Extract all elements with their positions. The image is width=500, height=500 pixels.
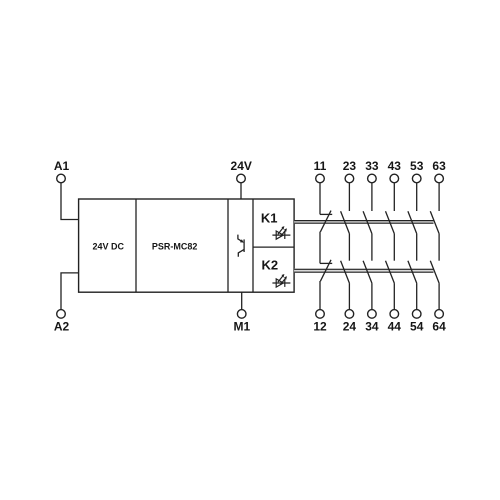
svg-text:M1: M1 [233, 320, 250, 334]
svg-text:53: 53 [410, 159, 424, 173]
svg-text:44: 44 [388, 320, 402, 334]
svg-text:PSR-MC82: PSR-MC82 [152, 242, 198, 252]
svg-text:24: 24 [343, 320, 357, 334]
svg-text:43: 43 [388, 159, 402, 173]
svg-text:63: 63 [432, 159, 446, 173]
svg-text:34: 34 [365, 320, 379, 334]
svg-text:54: 54 [410, 320, 424, 334]
svg-text:A1: A1 [54, 159, 70, 173]
svg-text:24V: 24V [231, 159, 252, 173]
svg-text:11: 11 [314, 159, 327, 173]
svg-text:12: 12 [313, 320, 327, 334]
svg-text:K1: K1 [261, 210, 278, 225]
svg-text:33: 33 [365, 159, 379, 173]
svg-text:24V DC: 24V DC [92, 242, 124, 252]
svg-text:23: 23 [343, 159, 357, 173]
svg-text:64: 64 [432, 320, 446, 334]
svg-text:A2: A2 [54, 320, 70, 334]
svg-text:K2: K2 [261, 258, 278, 273]
